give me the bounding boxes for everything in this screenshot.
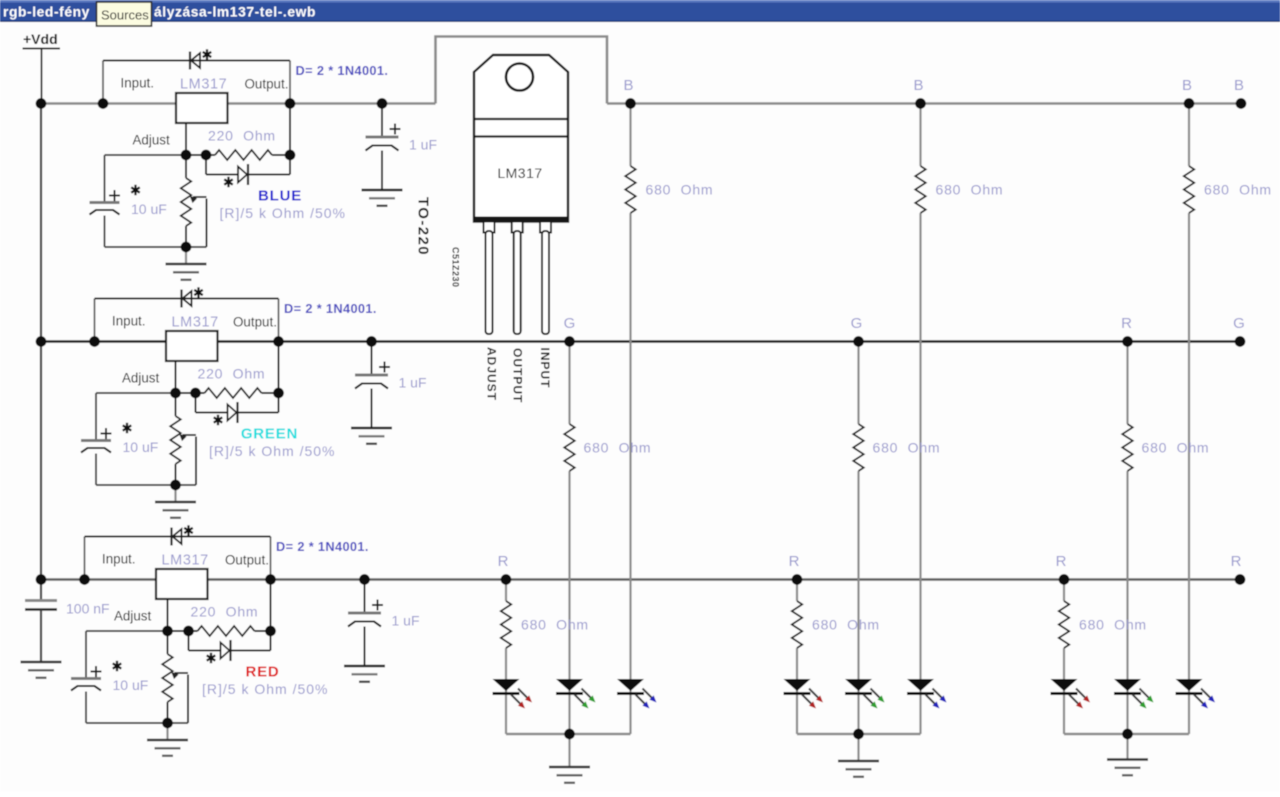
svg-text:B: B (1182, 77, 1192, 94)
svg-text:10 uF: 10 uF (113, 677, 149, 693)
svg-text:220 Ohm: 220 Ohm (191, 604, 259, 620)
svg-text:680 Ohm: 680 Ohm (812, 617, 880, 633)
svg-text:LM317: LM317 (180, 76, 227, 92)
svg-text:Output.: Output. (225, 553, 269, 568)
svg-text:TO-220: TO-220 (415, 197, 432, 256)
svg-text:R: R (498, 553, 509, 570)
svg-text:Input.: Input. (102, 552, 136, 567)
svg-text:B: B (1234, 77, 1244, 94)
svg-text:Adjust: Adjust (133, 133, 170, 148)
svg-text:G: G (564, 315, 576, 332)
svg-text:[R]/5 k Ohm /50%: [R]/5 k Ohm /50% (209, 443, 335, 459)
svg-text:Output.: Output. (233, 315, 277, 330)
svg-text:680 Ohm: 680 Ohm (873, 440, 941, 456)
svg-text:rgb-led-fény: rgb-led-fény (3, 5, 90, 20)
svg-text:G: G (1233, 315, 1245, 332)
svg-text:[R]/5 k Ohm /50%: [R]/5 k Ohm /50% (202, 681, 328, 697)
svg-text:BLUE: BLUE (258, 188, 302, 205)
svg-text:D= 2 * 1N4001.: D= 2 * 1N4001. (284, 301, 377, 316)
svg-text:Output.: Output. (245, 77, 289, 92)
svg-text:ályzása-lm137-tel-.ewb: ályzása-lm137-tel-.ewb (154, 5, 316, 20)
svg-text:220 Ohm: 220 Ohm (208, 128, 276, 144)
svg-text:GREEN: GREEN (241, 426, 298, 443)
svg-text:Adjust: Adjust (114, 609, 151, 624)
svg-text:Input.: Input. (112, 314, 146, 329)
svg-text:680 Ohm: 680 Ohm (584, 440, 652, 456)
svg-text:LM317: LM317 (162, 552, 209, 568)
svg-text:680 Ohm: 680 Ohm (936, 182, 1004, 198)
svg-text:680 Ohm: 680 Ohm (1079, 617, 1147, 633)
svg-text:[R]/5 k Ohm /50%: [R]/5 k Ohm /50% (220, 205, 346, 221)
svg-text:INPUT: INPUT (538, 348, 552, 389)
svg-text:ADJUST: ADJUST (485, 347, 499, 401)
svg-text:10 uF: 10 uF (131, 201, 167, 217)
svg-text:G: G (851, 315, 863, 332)
svg-text:R: R (789, 553, 800, 570)
svg-text:OUTPUT: OUTPUT (511, 348, 525, 403)
svg-text:680 Ohm: 680 Ohm (646, 182, 714, 198)
svg-text:100 nF: 100 nF (66, 601, 110, 617)
svg-text:Adjust: Adjust (122, 371, 159, 386)
svg-text:220 Ohm: 220 Ohm (198, 366, 266, 382)
svg-text:D= 2 * 1N4001.: D= 2 * 1N4001. (276, 539, 369, 554)
svg-text:R: R (1121, 315, 1132, 332)
svg-text:Sources: Sources (101, 8, 149, 23)
svg-text:R: R (1231, 553, 1242, 570)
svg-text:Input.: Input. (121, 76, 155, 91)
svg-text:680 Ohm: 680 Ohm (1142, 440, 1210, 456)
svg-text:680 Ohm: 680 Ohm (1204, 182, 1272, 198)
svg-text:R: R (1056, 553, 1067, 570)
svg-text:LM317: LM317 (497, 165, 542, 181)
svg-text:B: B (623, 77, 633, 94)
svg-text:LM317: LM317 (172, 314, 219, 330)
svg-text:C51Z230: C51Z230 (451, 247, 461, 288)
svg-text:680 Ohm: 680 Ohm (521, 617, 589, 633)
svg-text:1 uF: 1 uF (409, 137, 437, 153)
svg-text:D= 2 * 1N4001.: D= 2 * 1N4001. (296, 63, 389, 78)
svg-text:1 uF: 1 uF (392, 613, 420, 629)
svg-text:1 uF: 1 uF (399, 375, 427, 391)
svg-text:B: B (913, 77, 923, 94)
svg-text:+Vdd: +Vdd (23, 31, 58, 47)
svg-text:10 uF: 10 uF (123, 439, 159, 455)
svg-text:RED: RED (245, 664, 279, 681)
